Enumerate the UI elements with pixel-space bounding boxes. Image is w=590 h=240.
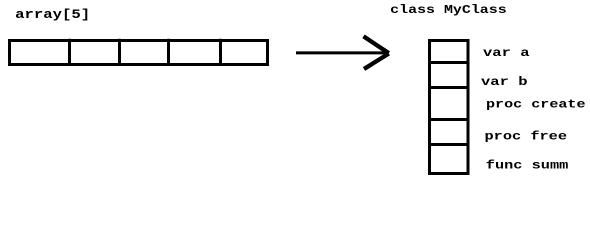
arrow upper barb [364, 36, 389, 53]
array box (5 cells) [10, 39, 268, 66]
class divider 1 [428, 61, 470, 64]
array cell divider 2 [118, 39, 121, 66]
svg-text:proc free: proc free [485, 130, 568, 144]
svg-text:var b: var b [481, 75, 528, 89]
class divider 2 [428, 86, 470, 89]
svg-text:proc create: proc create [486, 98, 586, 112]
svg-text:func summ: func summ [486, 158, 569, 172]
svg-text:array[5]: array[5] [15, 7, 90, 22]
array cell divider 1 [68, 39, 71, 66]
arrow shaft [296, 51, 389, 54]
arrow [296, 36, 389, 69]
arrow lower barb [364, 54, 389, 70]
array cell divider 4 [219, 39, 222, 66]
class divider 4 [428, 143, 470, 146]
class divider 3 [428, 118, 470, 121]
svg-text:class MyClass: class MyClass [390, 3, 507, 17]
svg-text:var a: var a [483, 46, 530, 60]
class box (5 member cells) [428, 41, 470, 174]
array cell divider 3 [167, 39, 170, 66]
